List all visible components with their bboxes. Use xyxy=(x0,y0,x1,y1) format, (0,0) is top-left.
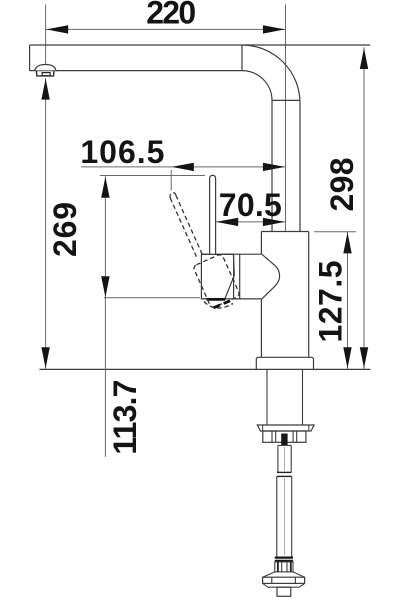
dimension 113.7 extension top xyxy=(100,175,205,177)
spout outer bend arc xyxy=(242,45,300,103)
supply tube upper left edge xyxy=(277,445,279,472)
svg-text:269: 269 xyxy=(47,202,83,257)
cartridge block inner line 1 xyxy=(233,254,235,299)
spout left edge xyxy=(29,45,31,71)
supply tube upper center line xyxy=(284,447,286,471)
mounting nut flat line 1 xyxy=(271,431,273,442)
svg-text:70.5: 70.5 xyxy=(219,187,282,223)
aerator skirt xyxy=(36,71,54,76)
lever rod (upright, solid) xyxy=(210,175,216,254)
adapter bevel right xyxy=(299,583,304,587)
lever motion dashed arc xyxy=(204,302,233,309)
lever hub (solid) xyxy=(201,254,234,299)
pipe joint line xyxy=(272,99,300,101)
dimension 220 arrow left xyxy=(46,25,68,33)
mounting plate bevel 1 xyxy=(262,425,264,431)
thread band line 1 xyxy=(275,556,293,558)
lever hub thick bottom xyxy=(207,298,226,301)
vertical pipe left edge xyxy=(271,100,273,231)
thread block flat 4 xyxy=(290,562,292,572)
dimension 70.5 arrow right xyxy=(263,218,285,226)
supply tube top edge xyxy=(278,444,291,446)
dimension 106.5 line xyxy=(81,166,286,168)
dimension 220 arrow right xyxy=(263,25,285,33)
aerator dome xyxy=(35,65,56,71)
dimension 106.5 extension segment xyxy=(170,170,172,191)
tube coupling line 2 xyxy=(277,475,292,477)
aerator outlet slot xyxy=(42,73,50,76)
mounting nut xyxy=(263,431,306,442)
stud socket dark block xyxy=(281,434,287,446)
extension line left (aerator centerline) xyxy=(45,4,47,66)
dimension 113.7 line xyxy=(104,176,106,457)
svg-text:220: 220 xyxy=(146,0,196,30)
lever rod dashed (tilted position) line 2 xyxy=(176,195,202,254)
dimension 106.5 arrow left xyxy=(172,163,194,171)
dimension 298 arrow top xyxy=(360,48,368,69)
body top line xyxy=(261,231,308,233)
mounting nut flat line 4 xyxy=(296,431,298,442)
spout inner bend arc xyxy=(242,71,272,101)
svg-text:298: 298 xyxy=(324,158,360,212)
svg-text:113.7: 113.7 xyxy=(107,380,143,455)
dimension 113.7 arrow bottom xyxy=(101,276,109,297)
body left edge lower xyxy=(260,299,262,357)
svg-text:127.5: 127.5 xyxy=(313,261,349,343)
thread block xyxy=(275,562,293,572)
cartridge block bottom line xyxy=(201,298,261,300)
adapter hex flat 2 xyxy=(294,577,296,583)
dimension 298 line xyxy=(363,47,365,368)
mounting plate bevel 2 xyxy=(308,425,310,431)
mounting nut flat line 3 xyxy=(292,431,294,442)
lever rod dashed cap xyxy=(170,193,176,198)
adapter bevel bottom line xyxy=(268,586,299,588)
svg-text:106.5: 106.5 xyxy=(80,134,164,170)
adapter bevel left xyxy=(263,583,268,587)
spout bend joint line xyxy=(241,45,243,71)
counter line xyxy=(39,368,370,370)
dimension 113.7 arrow top xyxy=(101,177,109,198)
dimension 113.7 extension bottom xyxy=(104,297,200,299)
spout top line + 298 extension xyxy=(30,44,371,46)
dimension 269 arrow top xyxy=(41,79,49,100)
lever hub dashed (tilted position) xyxy=(193,254,240,309)
lever rod dashed (tilted position) line 1 xyxy=(170,198,196,257)
supply tube lower right edge xyxy=(291,476,293,556)
shank left edge xyxy=(266,369,268,425)
supply tube lower center line xyxy=(284,478,286,555)
cartridge block inner line 2 xyxy=(239,254,241,299)
adapter hex xyxy=(263,577,305,583)
adapter hex flat 1 xyxy=(271,577,273,583)
adapter taper left xyxy=(263,572,275,577)
lever hub dashed thick bottom xyxy=(214,300,232,308)
body left edge upper xyxy=(260,232,262,255)
thread block flat 1 xyxy=(277,562,279,572)
body cone detail xyxy=(262,254,280,299)
dimension 127.5 line xyxy=(347,232,349,369)
mounting plate xyxy=(257,425,314,431)
dimension 127.5 arrow bottom xyxy=(343,347,351,368)
body right edge xyxy=(308,232,310,358)
thread band line 2 xyxy=(275,560,293,562)
supply tube lower left edge xyxy=(276,476,278,556)
dimension 127.5 arrow top xyxy=(343,232,351,253)
tube coupling line 1 xyxy=(277,471,291,473)
spout bottom line xyxy=(30,70,242,72)
extension line right (pipe centerline) xyxy=(285,4,287,231)
dimension 70.5 arrow left xyxy=(216,218,238,226)
base flange xyxy=(256,357,313,369)
thread block flat 2 xyxy=(281,562,283,572)
thread block flat 3 xyxy=(286,562,288,572)
shank right edge xyxy=(302,369,304,425)
dimension 106.5 arrow right xyxy=(263,163,285,171)
dimension 269 line xyxy=(45,78,47,369)
dimension 269 arrow bottom xyxy=(41,347,49,368)
dimension 127.5 extension tick xyxy=(314,231,356,233)
supply tube upper right edge xyxy=(290,445,292,472)
dimension 220 line xyxy=(46,28,286,30)
adapter taper right xyxy=(293,572,305,577)
mounting nut flat line 2 xyxy=(275,431,277,442)
cartridge block top line xyxy=(201,253,261,255)
bottom stub xyxy=(277,587,291,596)
dimension 298 arrow bottom xyxy=(360,347,368,368)
vertical pipe right edge xyxy=(299,103,301,232)
dimension 70.5 line xyxy=(216,221,286,223)
